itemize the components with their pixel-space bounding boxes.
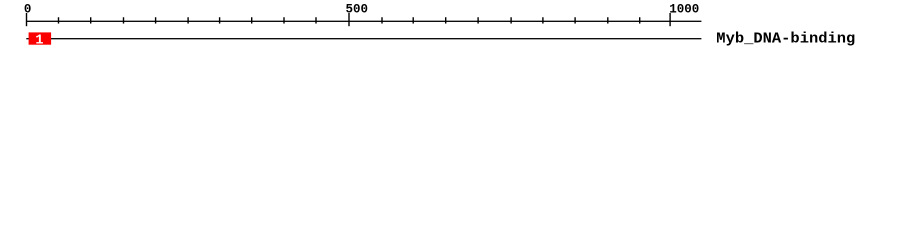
svg-text:500: 500 xyxy=(346,2,369,16)
ruler axis line xyxy=(26,21,701,22)
minor tick 300 xyxy=(219,17,220,23)
minor tick 100 xyxy=(90,17,91,23)
minor tick 450 xyxy=(315,17,316,23)
major tick 500 xyxy=(348,13,349,26)
minor tick 900 xyxy=(607,17,608,23)
minor tick 650 xyxy=(445,17,446,23)
minor tick 250 xyxy=(187,17,188,23)
svg-text:Myb_DNA-binding: Myb_DNA-binding xyxy=(716,31,855,48)
domain box Myb_DNA-binding hit 1 xyxy=(29,32,51,44)
minor tick 600 xyxy=(413,17,414,23)
minor tick 350 xyxy=(251,17,252,23)
major tick 1000 xyxy=(669,13,670,26)
minor tick 50 xyxy=(58,17,59,23)
protein backbone line xyxy=(26,38,701,39)
background xyxy=(0,0,900,58)
minor tick 950 xyxy=(639,17,640,23)
major tick 0 xyxy=(26,13,27,26)
minor tick 750 xyxy=(510,17,511,23)
svg-text:1000: 1000 xyxy=(669,2,699,16)
minor tick 400 xyxy=(283,17,284,23)
minor tick 550 xyxy=(381,17,382,23)
minor tick 200 xyxy=(155,17,156,23)
svg-text:0: 0 xyxy=(24,2,32,16)
minor tick 850 xyxy=(574,17,575,23)
minor tick 700 xyxy=(477,17,478,23)
svg-text:1: 1 xyxy=(35,33,43,48)
minor tick 800 xyxy=(542,17,543,23)
minor tick 150 xyxy=(123,17,124,23)
